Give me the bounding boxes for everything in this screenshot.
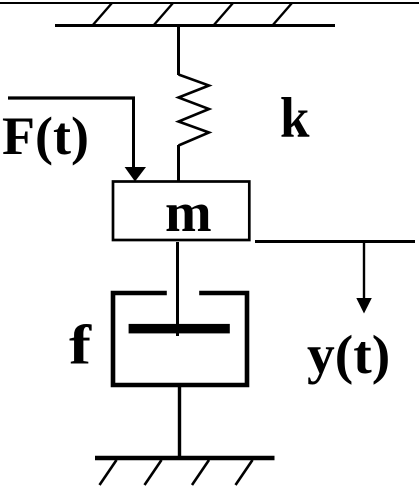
wire: rod from mass bottom to damper piston bbox=[176, 242, 179, 336]
svg-text:f: f bbox=[69, 314, 92, 376]
ceiling hatch 1 bbox=[92, 3, 112, 26]
output arrow shaft y(t) bbox=[363, 242, 365, 301]
ceiling hatch 2 bbox=[153, 3, 173, 26]
damper f cylinder (cup open at top) bbox=[113, 293, 247, 385]
wire: rod from damper bottom to ground bbox=[178, 385, 181, 458]
arrowhead of y(t) arrow bbox=[356, 298, 372, 314]
ceiling bottom line bbox=[55, 24, 335, 27]
ground hatch 2 bbox=[145, 460, 162, 485]
svg-text:F(t): F(t) bbox=[2, 106, 89, 166]
ceiling hatch 4 bbox=[272, 3, 292, 26]
force input line F(t): horizontal segment bbox=[8, 96, 135, 99]
ceiling hatch 3 bbox=[213, 3, 233, 26]
svg-text:m: m bbox=[165, 182, 212, 244]
arrowhead of F(t) force arrow bbox=[125, 167, 146, 182]
spring k bbox=[179, 75, 210, 146]
force input line F(t): vertical segment bbox=[132, 97, 135, 169]
svg-text:k: k bbox=[280, 86, 310, 149]
label k bbox=[280, 86, 310, 149]
wire: rod from spring bottom to mass top bbox=[177, 145, 180, 182]
ground hatch 4 bbox=[236, 460, 253, 485]
ground hatch 3 bbox=[192, 460, 209, 485]
wire: rod from ceiling to spring top bbox=[177, 25, 180, 75]
output takeoff line bbox=[255, 240, 415, 243]
label f bbox=[69, 314, 92, 376]
svg-text:y(t): y(t) bbox=[307, 325, 390, 386]
ceiling top line bbox=[0, 2, 419, 4]
ground hatch 1 bbox=[100, 460, 117, 485]
ground line bbox=[95, 456, 275, 461]
damper piston bar bbox=[129, 324, 230, 334]
mass m rectangle bbox=[113, 182, 249, 241]
